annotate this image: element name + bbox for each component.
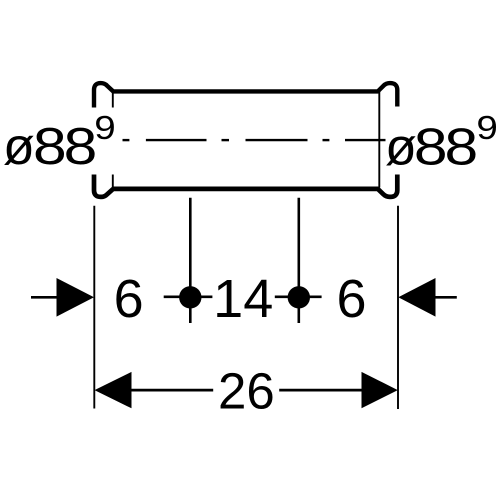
bottom left arrowhead: [95, 372, 132, 408]
svg-text:88: 88: [414, 117, 476, 175]
left extension line: [93, 206, 95, 409]
centerline dash-dot: [123, 139, 386, 141]
right side arrowhead: [398, 278, 435, 317]
sleeve top outline with end beads: [94, 83, 397, 107]
left side arrowhead: [57, 278, 95, 317]
reference line 2 (right crosshair vertical): [297, 198, 300, 323]
svg-text:ø: ø: [385, 118, 417, 176]
bottom right arrowhead: [362, 372, 398, 408]
svg-text:9: 9: [94, 109, 115, 147]
right superscript 9: [476, 109, 497, 147]
reference line 1 (left crosshair vertical): [189, 198, 192, 323]
sleeve bottom outline with end beads: [94, 175, 397, 197]
svg-text:14: 14: [213, 269, 273, 329]
left superscript 9: [94, 109, 115, 147]
right side arrow tail: [435, 296, 457, 299]
sleeve left inner edge (broken by text): [112, 91, 114, 107]
right extension line: [397, 206, 399, 409]
svg-text:26: 26: [218, 362, 275, 419]
bottom dimension line left segment: [132, 389, 214, 392]
reference dot 1: [179, 286, 201, 308]
bottom dimension line right segment: [279, 389, 361, 392]
left label 88: [33, 117, 95, 175]
right label 88: [414, 117, 476, 175]
reference dot 2: [288, 286, 310, 308]
crosshair horizontal right: [275, 295, 322, 298]
svg-text:9: 9: [476, 109, 497, 147]
svg-text:ø: ø: [3, 118, 35, 176]
svg-text:88: 88: [33, 117, 95, 175]
svg-text:6: 6: [336, 269, 366, 329]
svg-text:6: 6: [114, 269, 144, 329]
crosshair horizontal left: [164, 295, 213, 298]
sleeve right inner edge: [378, 91, 380, 187]
left side arrow tail: [31, 296, 57, 299]
